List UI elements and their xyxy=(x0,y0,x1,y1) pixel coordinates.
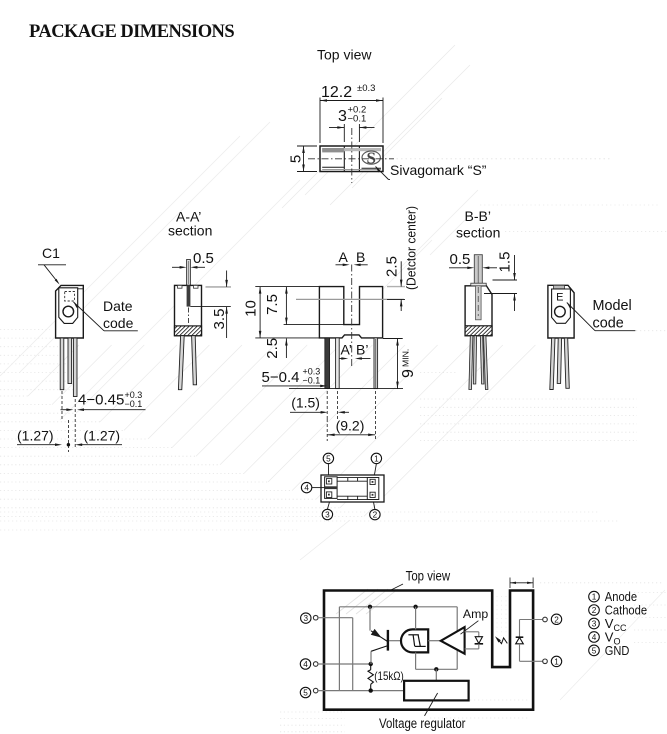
svg-text:±0.3: ±0.3 xyxy=(357,83,375,94)
A-A hatched base band xyxy=(163,325,223,337)
central front view body (U slot) xyxy=(319,287,382,338)
svg-text:(15kΩ): (15kΩ) xyxy=(374,669,404,683)
svg-text:5−0.4: 5−0.4 xyxy=(262,369,300,386)
svg-text:1.5: 1.5 xyxy=(497,252,514,273)
svg-text:(1.5): (1.5) xyxy=(291,395,320,411)
A-A slit tube above body xyxy=(187,260,191,286)
legend pin names xyxy=(589,589,647,658)
dimension 10 package height xyxy=(243,287,262,338)
Sivago S mark xyxy=(362,149,380,168)
label Amp with leader xyxy=(461,607,489,634)
svg-text:5: 5 xyxy=(288,155,305,163)
label C1 with leader xyxy=(38,245,66,285)
svg-text:code: code xyxy=(593,316,624,332)
amplifier A1 xyxy=(428,627,464,654)
bottom view right pin block xyxy=(367,478,379,500)
B-B section leads (4) xyxy=(469,336,488,390)
label Voltage regulator with leader xyxy=(379,693,466,731)
right device body xyxy=(548,285,574,338)
svg-text:(9.2): (9.2) xyxy=(336,418,365,434)
svg-text:(Detctor center): (Detctor center) xyxy=(404,206,419,290)
right device leads xyxy=(550,338,570,390)
pin 4 terminal xyxy=(300,659,310,669)
dimension 1.5 (B-B) xyxy=(484,252,517,311)
central view leads xyxy=(325,338,378,389)
svg-text:B-B’: B-B’ xyxy=(465,208,491,224)
A-A section body xyxy=(163,285,223,336)
pin 1 callout xyxy=(371,453,381,463)
svg-text:3: 3 xyxy=(325,510,330,519)
svg-text:B’: B’ xyxy=(356,342,368,358)
bottom view middle rails xyxy=(337,478,367,500)
A-A section leads xyxy=(178,336,196,390)
right device front plate xyxy=(552,289,571,323)
svg-text:4: 4 xyxy=(304,484,309,493)
svg-text:4: 4 xyxy=(592,633,597,642)
svg-text:2.5: 2.5 xyxy=(264,338,281,359)
pin 1 terminal xyxy=(520,656,562,666)
svg-text:1: 1 xyxy=(374,454,379,463)
extension lines central dims xyxy=(255,287,405,338)
svg-text:3: 3 xyxy=(338,108,347,125)
svg-text:B: B xyxy=(356,249,365,265)
schmitt trigger U1 xyxy=(389,607,428,670)
svg-text:5: 5 xyxy=(303,688,308,697)
pin 4 callout xyxy=(301,482,311,492)
svg-text:9: 9 xyxy=(400,369,417,378)
A-A slit (dark) xyxy=(187,285,191,306)
svg-text:1: 1 xyxy=(592,593,597,602)
circuit package outline xyxy=(324,591,533,710)
svg-text:−0.1: −0.1 xyxy=(303,376,321,386)
svg-text:Model: Model xyxy=(593,298,632,314)
right device hole xyxy=(555,306,566,317)
B-B section body xyxy=(453,283,513,336)
svg-text:2: 2 xyxy=(373,511,378,520)
B-B hatched base band xyxy=(453,325,513,337)
svg-text:3.5: 3.5 xyxy=(211,309,228,330)
svg-text:5: 5 xyxy=(592,646,597,655)
dimension 12.2 +-0.3 xyxy=(320,83,383,143)
svg-text:−0.1: −0.1 xyxy=(125,399,143,409)
B-B dimension 0.5 xyxy=(449,251,497,269)
dimension (1.5) xyxy=(290,391,349,419)
wire top rail xyxy=(339,607,457,670)
svg-text:4−0.45: 4−0.45 xyxy=(78,392,124,409)
svg-text:3: 3 xyxy=(304,614,309,623)
voltage regulator box xyxy=(404,667,469,700)
svg-text:2: 2 xyxy=(554,615,559,624)
left device body xyxy=(56,285,84,338)
svg-text:Top view: Top view xyxy=(406,568,451,583)
photodiode D2 xyxy=(465,632,484,649)
resistor 15k xyxy=(368,664,373,691)
svg-text:4: 4 xyxy=(303,660,308,669)
svg-text:Top view: Top view xyxy=(317,47,372,63)
bottom view left pin block xyxy=(325,477,338,499)
pin 3 callout xyxy=(322,509,332,519)
B-B slit tube xyxy=(474,255,482,285)
section cut centerline A-B xyxy=(351,265,353,368)
svg-text:5: 5 xyxy=(326,454,331,463)
svg-text:Voltage regulator: Voltage regulator xyxy=(379,716,466,731)
svg-text:section: section xyxy=(456,225,500,241)
dimension 9 MIN lead length xyxy=(289,339,417,389)
phototransistor Q1 xyxy=(370,607,388,664)
pin 2 callout xyxy=(370,509,380,519)
svg-text:(1.27): (1.27) xyxy=(17,428,54,444)
A-A dimension 0.5 slit width xyxy=(172,250,214,269)
pin 2 terminal xyxy=(520,614,562,624)
dimension 3 +0.2/-0.1 xyxy=(329,105,375,143)
svg-text:7.5: 7.5 xyxy=(264,294,281,315)
B-B inner slit xyxy=(476,286,482,320)
svg-text:C1: C1 xyxy=(42,245,60,261)
svg-text:PACKAGE DIMENSIONS: PACKAGE DIMENSIONS xyxy=(29,22,234,42)
svg-text:(1.27): (1.27) xyxy=(84,428,121,444)
dimension 3.5 slit depth xyxy=(190,271,231,339)
wire bottom rail to regulator xyxy=(339,690,404,692)
dimension 2.5 below body xyxy=(264,338,288,359)
dimension 5 (top view height) xyxy=(288,146,318,172)
svg-text:section: section xyxy=(168,223,212,239)
dimension 5-0.4 lead width callout xyxy=(262,367,328,388)
dimension 2.5 detector center xyxy=(384,256,403,311)
svg-text:2.5: 2.5 xyxy=(384,256,401,277)
LED D1 xyxy=(516,620,524,662)
label Date code with leader xyxy=(74,298,138,331)
svg-text:Date: Date xyxy=(103,298,133,314)
light arrow in slot xyxy=(495,636,507,643)
svg-text:E: E xyxy=(556,291,563,303)
dimension (9.2) xyxy=(327,391,375,441)
left device hole xyxy=(63,306,74,317)
svg-text:−0.1: −0.1 xyxy=(348,114,367,125)
pin 5 terminal xyxy=(300,687,310,697)
dimension arrows top right of package xyxy=(510,578,533,589)
svg-text:1: 1 xyxy=(554,657,559,666)
pin 3 terminal xyxy=(301,613,311,623)
label Model code with leader xyxy=(567,298,636,332)
wire pin3 to internal xyxy=(318,618,353,691)
detector center line (gray) xyxy=(296,298,404,300)
left device date code area (dashed) xyxy=(65,292,75,302)
pin 5 callout xyxy=(323,453,333,463)
bottom view outline xyxy=(321,475,384,502)
dimension (1.27)(1.27) lead pitch xyxy=(17,428,122,447)
labels A-prime B-prime with arrows xyxy=(339,342,371,360)
junction dots top rail xyxy=(368,605,372,609)
left device front plate xyxy=(59,288,78,324)
left device leads xyxy=(60,338,77,397)
svg-text:3: 3 xyxy=(592,619,597,628)
svg-text:12.2: 12.2 xyxy=(321,84,352,101)
svg-text:Sivagomark “S”: Sivagomark “S” xyxy=(390,162,487,178)
svg-text:MIN.: MIN. xyxy=(400,349,410,367)
top view package body xyxy=(320,146,383,172)
top view centerlines xyxy=(308,158,394,160)
label Sivagomark S with leader xyxy=(376,162,487,180)
svg-text:code: code xyxy=(103,315,134,331)
svg-text:A’: A’ xyxy=(341,342,352,358)
svg-text:0.5: 0.5 xyxy=(450,251,471,268)
svg-text:A: A xyxy=(339,249,349,265)
svg-text:Amp: Amp xyxy=(463,607,488,621)
svg-text:S: S xyxy=(366,149,375,168)
wire pin5 riser xyxy=(318,607,339,691)
svg-text:0.5: 0.5 xyxy=(193,250,214,267)
labels A B with arrows xyxy=(336,249,368,266)
svg-text:10: 10 xyxy=(243,300,260,317)
wire pin4 to output node xyxy=(318,663,371,665)
dimension 4-0.45 lead width xyxy=(61,390,146,452)
svg-text:2: 2 xyxy=(592,606,597,615)
dimension 7.5 slot depth xyxy=(264,287,288,325)
